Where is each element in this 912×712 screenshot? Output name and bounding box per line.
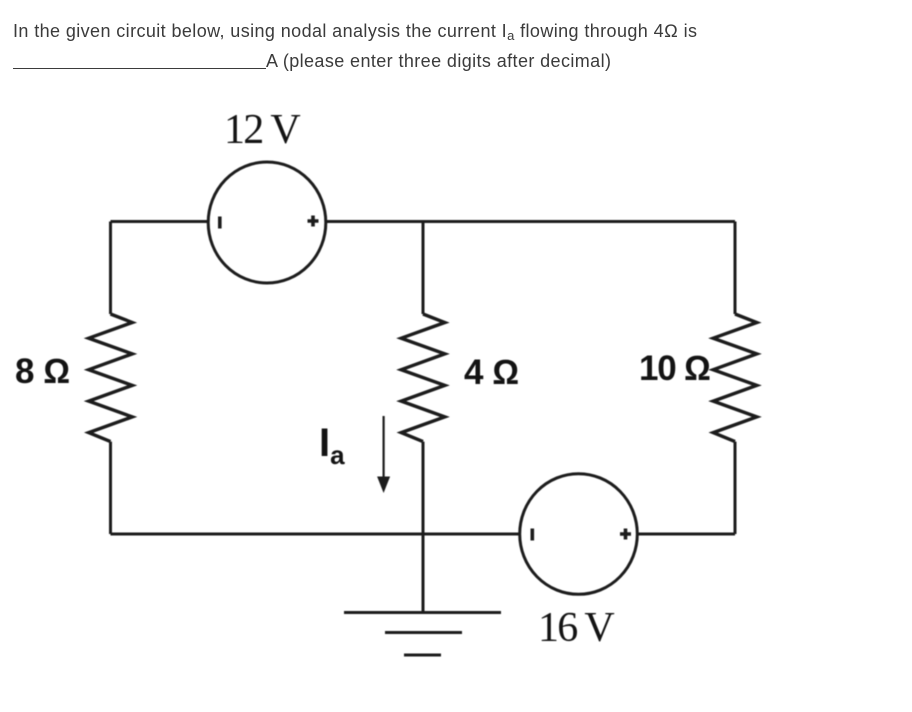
U2 minus mark [531, 529, 535, 541]
ground bar 1 [344, 611, 501, 614]
wire bottom-left [111, 533, 424, 536]
current label Ia [319, 423, 345, 468]
wire left branch upper [109, 222, 112, 315]
U1 plus mark [308, 216, 319, 227]
voltage source U2 (16 V) circle [520, 474, 638, 595]
wire left branch lower [109, 442, 112, 534]
value label 12 V [224, 109, 299, 151]
wire right branch lower [734, 442, 737, 534]
wire node B to ground [422, 534, 425, 613]
value label 4 ohm [464, 355, 519, 390]
wire middle branch upper [422, 222, 425, 315]
wire top-right [423, 220, 735, 223]
wire middle branch lower (Ia) [422, 442, 425, 534]
U2 plus mark [620, 529, 631, 540]
ground bar 3 [404, 654, 441, 657]
wire top from U1 to node A [326, 220, 423, 223]
value label 8 ohm [15, 354, 70, 389]
resistor R3 10 ohm [713, 314, 757, 442]
current arrow Ia [377, 416, 390, 493]
wire top-left [111, 220, 209, 223]
voltage source U1 (12 V) circle [208, 162, 326, 283]
U1 minus mark [218, 217, 222, 229]
resistor R2 4 ohm [401, 314, 445, 442]
resistor R1 8 ohm [89, 314, 133, 442]
wire right branch upper [734, 222, 737, 315]
ground bar 2 [385, 631, 462, 634]
value label 10 ohm [639, 351, 710, 386]
wire bottom from node B to U2 [423, 533, 520, 536]
question text [13, 16, 697, 76]
wire bottom-right [637, 533, 735, 536]
value label 16 V [538, 607, 613, 649]
